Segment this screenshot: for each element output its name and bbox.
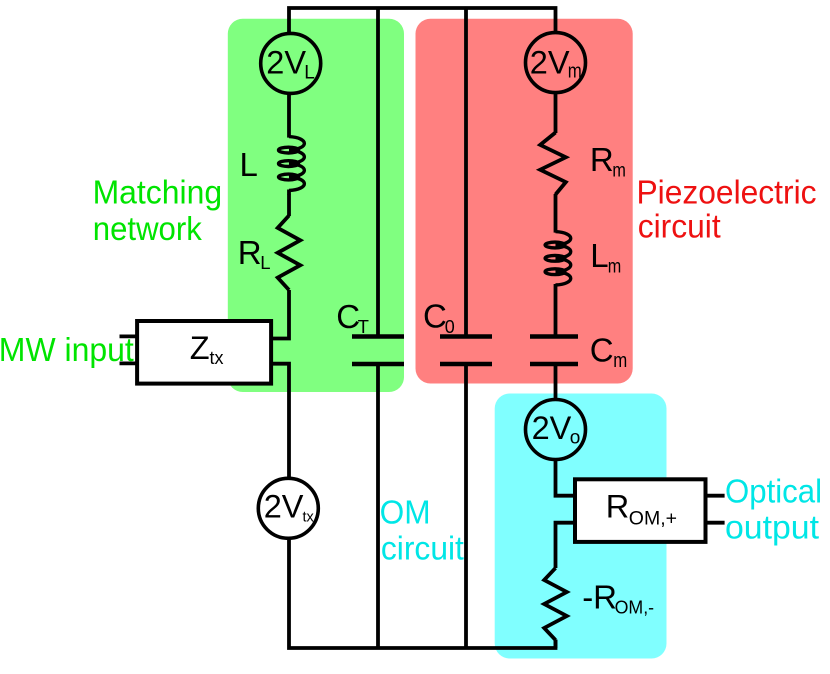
wire 2Vo to ROM+	[556, 459, 576, 495]
wire 2Vm to Rm	[554, 93, 558, 134]
OM region (cyan box)	[495, 394, 667, 659]
svg-text:MW input: MW input	[0, 331, 134, 368]
svg-text:m: m	[568, 61, 582, 83]
svg-text:T: T	[358, 316, 369, 337]
inductor Lm	[556, 232, 571, 245]
wire rail2 lower (CT bottom)	[376, 364, 380, 648]
svg-text:L: L	[260, 252, 270, 273]
wire L to RL	[287, 194, 291, 216]
svg-text:L: L	[590, 237, 608, 274]
wire RL to Ztx	[271, 290, 289, 339]
resistor Rm	[540, 133, 566, 195]
capacitor C0	[440, 334, 492, 339]
wire Cm to 2Vo	[554, 364, 558, 400]
wire bottom bus	[289, 538, 556, 648]
voltage source 2Vo	[526, 400, 586, 460]
svg-text:network: network	[93, 210, 202, 247]
svg-text:C: C	[423, 298, 447, 335]
svg-text:tx: tx	[303, 510, 315, 526]
inductor L	[289, 137, 304, 151]
svg-text:L: L	[304, 62, 315, 83]
wire Ztx to 2Vtx	[271, 364, 289, 479]
voltage source 2Vtx	[258, 478, 318, 538]
svg-text:R: R	[238, 234, 262, 271]
svg-text:tx: tx	[210, 348, 224, 368]
svg-text:Z: Z	[190, 330, 210, 366]
svg-text:R: R	[590, 141, 614, 178]
svg-text:OM,-: OM,-	[615, 597, 655, 618]
wire Lm to Cm	[554, 289, 558, 337]
svg-text:circuit: circuit	[638, 208, 721, 245]
svg-text:-R: -R	[582, 579, 617, 616]
svg-text:Piezoelectric: Piezoelectric	[637, 173, 817, 210]
wire ROM+ to -ROM-	[556, 523, 576, 568]
svg-text:2V: 2V	[264, 489, 304, 525]
svg-text:2V: 2V	[530, 45, 570, 81]
impedance Ztx box	[137, 321, 271, 384]
matching network region (green box)	[228, 19, 404, 392]
wire rail2 upper (CT top)	[376, 8, 380, 337]
svg-text:0: 0	[445, 317, 455, 337]
wire 2VL to L	[287, 93, 291, 134]
svg-text:m: m	[612, 160, 626, 182]
svg-text:output: output	[725, 509, 819, 546]
resistor RL	[278, 216, 301, 291]
capacitor CT	[352, 334, 404, 339]
svg-text:OM,+: OM,+	[629, 507, 677, 529]
svg-text:m: m	[608, 256, 622, 278]
capacitor Cm	[530, 334, 578, 339]
svg-text:m: m	[613, 350, 627, 372]
svg-text:R: R	[606, 489, 629, 525]
wire top bus	[289, 8, 556, 34]
svg-text:C: C	[336, 298, 360, 335]
svg-text:2V: 2V	[532, 410, 572, 446]
wire rail3 upper (C0 top)	[464, 8, 468, 337]
wire Rm to Lm	[554, 194, 558, 229]
resistor -ROM-	[544, 568, 567, 640]
ROM+ right output stubs	[706, 494, 725, 498]
voltage source 2Vm	[526, 33, 586, 93]
voltage source 2VL	[261, 33, 321, 93]
svg-text:L: L	[240, 146, 258, 183]
resistor ROM+ box	[575, 479, 706, 542]
wire rail3 lower (C0 bottom)	[464, 364, 468, 648]
svg-text:o: o	[570, 427, 581, 448]
Ztx left input stubs	[120, 334, 138, 338]
svg-text:Optical: Optical	[725, 472, 822, 509]
svg-text:OM: OM	[380, 493, 431, 530]
piezoelectric region (red box)	[416, 19, 633, 384]
svg-text:C: C	[590, 332, 614, 369]
wire -ROM- to bottom bus	[554, 640, 558, 648]
svg-text:circuit: circuit	[381, 530, 464, 567]
svg-text:Matching: Matching	[93, 174, 223, 211]
svg-text:2V: 2V	[266, 44, 306, 80]
